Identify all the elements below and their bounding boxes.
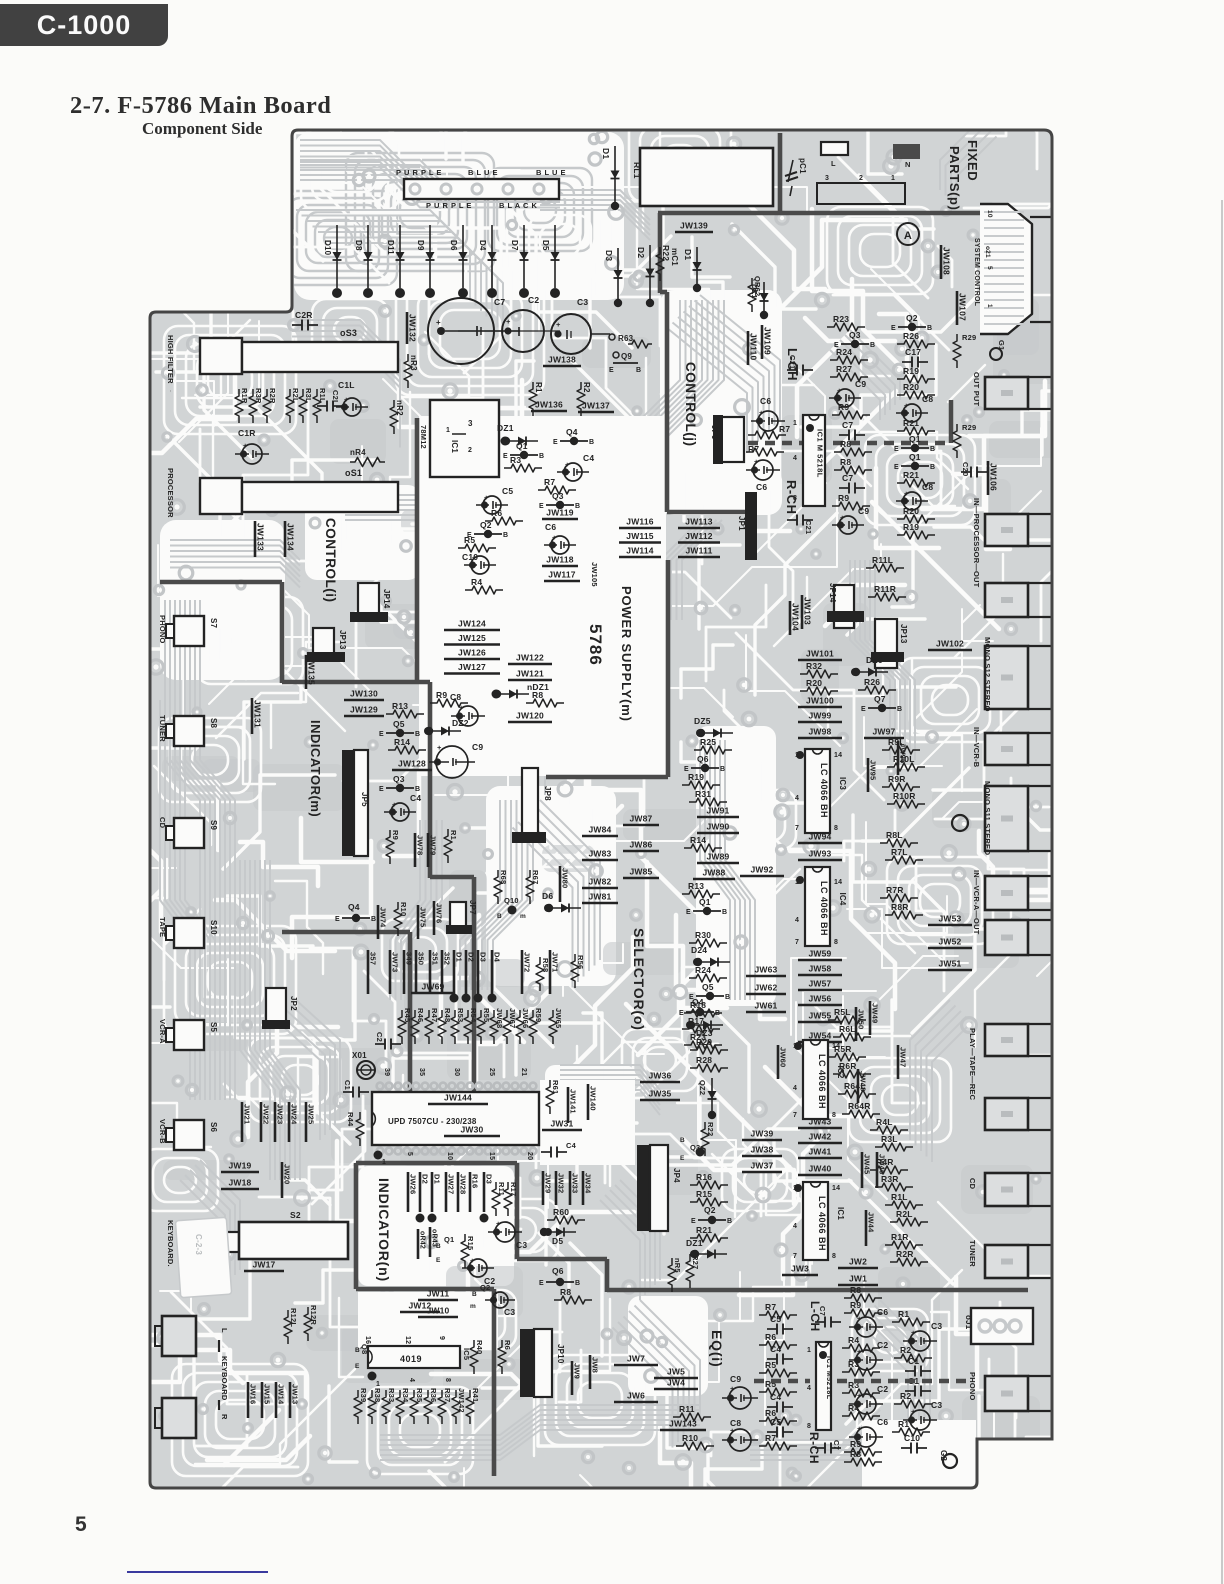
svg-text:B: B [472, 1291, 477, 1298]
svg-text:C1R: C1R [238, 428, 256, 438]
capacitor C1L [343, 398, 361, 416]
svg-text:C5: C5 [502, 486, 513, 496]
resistor [953, 424, 961, 458]
resistor R5 [458, 544, 496, 552]
jumper JW27 [445, 1172, 448, 1212]
connector oS1 [200, 478, 242, 514]
jumper JW60 [777, 1045, 780, 1079]
svg-text:Q2: Q2 [480, 1283, 490, 1292]
resistor [492, 1182, 500, 1216]
svg-text:R13: R13 [392, 701, 408, 711]
svg-text:JW20: JW20 [283, 1164, 292, 1184]
svg-text:R11L: R11L [872, 555, 893, 565]
jumper JW101 [798, 659, 842, 662]
resistor [529, 1010, 537, 1044]
svg-text:JP10: JP10 [556, 1344, 565, 1364]
svg-text:JW141: JW141 [569, 1089, 578, 1114]
jumper JW43 [798, 1127, 842, 1130]
svg-text:16: 16 [364, 1336, 371, 1344]
jumper D3 [483, 1172, 486, 1212]
svg-text:R68: R68 [499, 870, 508, 884]
svg-text:JW39: JW39 [750, 1129, 773, 1139]
svg-text:JW131: JW131 [253, 700, 263, 728]
svg-text:oS3: oS3 [344, 341, 347, 343]
svg-text:C1: C1 [343, 1080, 352, 1090]
svg-text:JW81: JW81 [588, 892, 611, 902]
svg-text:KEYBOARD: KEYBOARD [220, 1356, 229, 1401]
svg-text:R11R: R11R [874, 584, 896, 594]
jumper JW136 [531, 410, 567, 413]
svg-text:E: E [680, 1155, 685, 1162]
svg-text:R8: R8 [850, 1449, 861, 1459]
jumper JW78 [414, 833, 417, 867]
svg-text:R7: R7 [765, 1302, 776, 1312]
svg-text:E: E [379, 731, 384, 738]
svg-text:R38: R38 [373, 1388, 382, 1402]
resistor [686, 1254, 694, 1288]
capacitor C1 [905, 1390, 915, 1392]
svg-text:E: E [894, 446, 899, 453]
svg-text:E: E [539, 503, 544, 510]
svg-text:349: 349 [405, 952, 414, 965]
svg-text:KEYBOARD.: KEYBOARD. [166, 1220, 175, 1267]
capacitor C8 [729, 1429, 751, 1451]
resistor R2 [894, 1400, 932, 1408]
svg-text:POWER SUPPLY(m): POWER SUPPLY(m) [619, 586, 634, 722]
resistor [498, 1340, 506, 1374]
transistor [342, 917, 370, 919]
transistor [868, 707, 896, 709]
svg-text:JW99: JW99 [808, 711, 831, 721]
diode [856, 671, 888, 673]
resistor R26 [858, 686, 896, 694]
svg-text:JW106: JW106 [989, 463, 999, 491]
jumper JW71 [549, 950, 552, 994]
jumper JW127 [444, 672, 500, 675]
svg-text:78M12: 78M12 [419, 425, 428, 449]
svg-text:R25: R25 [700, 737, 716, 747]
jumper JW102 [928, 649, 972, 652]
svg-text:JP5: JP5 [360, 792, 369, 807]
resistor [286, 389, 294, 423]
svg-text:JW113: JW113 [685, 517, 713, 527]
resistor R6 [759, 1417, 797, 1425]
jumper JW122 [508, 663, 552, 666]
jumper JW26 [407, 1172, 410, 1212]
svg-text:12: 12 [404, 1336, 411, 1344]
resistor R5 [759, 1369, 797, 1377]
svg-text:C4: C4 [583, 453, 594, 463]
svg-text:JW85: JW85 [629, 867, 652, 877]
svg-text:JW49: JW49 [871, 1003, 880, 1023]
jumper JW33 [569, 1171, 572, 1205]
jumper JW120 [508, 721, 552, 724]
switch S2 [215, 1232, 239, 1252]
capacitor [375, 1043, 385, 1045]
resistor R9 [832, 411, 870, 419]
svg-text:R15: R15 [466, 1236, 475, 1250]
svg-text:JW57: JW57 [808, 979, 831, 989]
resistor [263, 389, 271, 423]
svg-text:PLAY—TAPE—REC: PLAY—TAPE—REC [968, 1028, 977, 1101]
svg-text:R10: R10 [682, 1433, 698, 1443]
svg-text:JW87: JW87 [629, 814, 652, 824]
svg-text:R6R: R6R [839, 1061, 857, 1071]
jumper JW4 [654, 1388, 698, 1391]
resistor R29 [690, 1046, 728, 1054]
transistor [686, 1011, 714, 1013]
jumper JW104 [789, 601, 792, 635]
connector TUNER [985, 1245, 1028, 1278]
svg-text:R7: R7 [779, 424, 790, 434]
transistor [696, 995, 724, 997]
resistor [354, 1390, 362, 1424]
svg-text:nR5: nR5 [673, 1258, 682, 1273]
capacitor C4 [391, 803, 409, 821]
resistor [313, 389, 321, 423]
svg-text:JW127: JW127 [458, 662, 486, 672]
resistor R3 [504, 464, 542, 472]
resistor R6L [833, 1033, 871, 1041]
resistor [438, 1390, 446, 1424]
jumper JW139 [675, 231, 713, 234]
jumper JW59 [798, 959, 842, 962]
svg-text:JW29: JW29 [544, 1173, 553, 1193]
svg-text:B: B [725, 994, 730, 1001]
svg-text:JW59: JW59 [808, 949, 831, 959]
svg-text:C-2-3: C-2-3 [194, 1234, 203, 1255]
jumper JW63 [746, 975, 786, 978]
svg-text:JW109: JW109 [763, 327, 773, 355]
svg-text:R7: R7 [544, 477, 555, 487]
svg-text:E: E [503, 453, 508, 460]
connector CD [985, 1173, 1028, 1206]
svg-text:JW41: JW41 [808, 1147, 831, 1157]
svg-text:oS3: oS3 [340, 328, 357, 338]
svg-text:Q4: Q4 [692, 997, 704, 1007]
svg-text:R31: R31 [695, 789, 711, 799]
svg-text:C1L: C1L [338, 380, 355, 390]
capacitor [787, 369, 797, 371]
svg-text:1: 1 [793, 420, 797, 427]
connector PLAY—TAPE—REC [985, 1098, 1028, 1130]
switch S7 (PHONO) [174, 616, 204, 646]
svg-text:D4: D4 [478, 240, 487, 251]
svg-text:D10: D10 [323, 240, 332, 256]
resistor R60 [547, 1216, 585, 1224]
svg-text:DZ1: DZ1 [750, 284, 759, 299]
IC IC4 [805, 867, 830, 946]
svg-text:14: 14 [832, 1185, 840, 1192]
svg-text:JW61: JW61 [754, 1001, 777, 1011]
resistor [526, 870, 534, 904]
svg-text:JW24: JW24 [290, 1104, 299, 1125]
transistor [691, 767, 719, 769]
svg-text:39: 39 [383, 1068, 390, 1076]
diode DZ1 [763, 282, 765, 312]
connector IN—VCR-A—OUT [985, 920, 1028, 955]
svg-text:C6: C6 [877, 1417, 888, 1427]
svg-text:+: + [840, 513, 845, 522]
resistor R26 [897, 340, 935, 348]
svg-text:1: 1 [807, 1347, 811, 1354]
svg-text:R36: R36 [429, 1388, 438, 1402]
svg-text:D6: D6 [542, 891, 553, 901]
svg-text:C3: C3 [931, 1321, 942, 1331]
jumper JW58 [798, 974, 842, 977]
connector wire-colour strip [404, 179, 559, 199]
resistor R1R [885, 1241, 923, 1249]
svg-text:R2: R2 [582, 382, 591, 393]
resistor R1 [892, 1318, 930, 1326]
resistor R9 [832, 502, 870, 510]
svg-text:D3: D3 [479, 952, 488, 962]
svg-text:JW112: JW112 [685, 531, 713, 541]
svg-text:D2: D2 [421, 1174, 430, 1184]
svg-text:TAPE: TAPE [158, 917, 167, 937]
svg-text:JW107: JW107 [958, 293, 968, 321]
diode [695, 1253, 727, 1255]
svg-text:JP14: JP14 [828, 583, 837, 603]
svg-text:MONO S12 STEREO: MONO S12 STEREO [983, 637, 992, 712]
svg-text:R6: R6 [503, 1340, 512, 1350]
jumper JW88 [693, 878, 735, 881]
resistor R31 [689, 798, 727, 806]
svg-text:L: L [220, 1328, 229, 1333]
svg-text:9: 9 [438, 1336, 445, 1340]
svg-text:R21: R21 [903, 418, 919, 428]
svg-text:JW116: JW116 [626, 517, 654, 527]
jumper JW92 [740, 875, 784, 878]
resistor R23 [827, 323, 865, 331]
jumper JW45 [861, 1152, 864, 1188]
svg-text:R8: R8 [850, 1285, 861, 1295]
svg-text:o21: o21 [984, 246, 991, 258]
connector JP8 [522, 768, 538, 834]
svg-text:JW88: JW88 [702, 868, 725, 878]
svg-text:R4L: R4L [876, 1117, 893, 1127]
svg-text:350: 350 [417, 952, 426, 965]
jumper JW95 [867, 758, 870, 792]
svg-text:+: + [493, 1289, 498, 1298]
jumper JW69 [411, 992, 455, 995]
svg-text:Q1: Q1 [516, 441, 528, 451]
jumper JW29 [542, 1171, 545, 1205]
svg-text:JP7: JP7 [468, 900, 477, 915]
svg-text:Q2: Q2 [480, 520, 492, 530]
resistor R17 [682, 1025, 720, 1033]
resistor R4 [842, 1412, 880, 1420]
svg-text:JW65: JW65 [554, 1008, 563, 1028]
svg-text:R37: R37 [443, 1388, 452, 1402]
jumper D1 [431, 1172, 434, 1212]
jumper 349 [403, 950, 406, 994]
svg-text:R6: R6 [765, 1332, 776, 1342]
svg-text:R2: R2 [900, 1345, 911, 1355]
svg-text:JW4: JW4 [667, 1378, 685, 1388]
resistor [284, 1310, 292, 1344]
svg-text:+: + [437, 743, 442, 752]
resistor R4 [465, 586, 503, 594]
svg-text:R3L: R3L [304, 388, 313, 403]
svg-text:C20: C20 [961, 462, 970, 476]
svg-text:JW23: JW23 [276, 1104, 285, 1124]
svg-text:D1: D1 [455, 952, 464, 962]
svg-text:D4: D4 [493, 952, 502, 963]
svg-text:JW83: JW83 [588, 849, 611, 859]
svg-text:JW91: JW91 [706, 806, 729, 816]
svg-text:Q6: Q6 [697, 754, 709, 764]
svg-text:R20: R20 [903, 506, 919, 516]
svg-text:R39: R39 [359, 1388, 368, 1402]
svg-text:B: B [415, 731, 420, 738]
svg-text:Q3: Q3 [552, 491, 564, 501]
jumper JW17 [244, 1270, 284, 1273]
svg-text:B: B [927, 325, 932, 332]
svg-text:D7: D7 [510, 240, 519, 251]
jumper JW57 [798, 989, 842, 992]
IC IC6 UPD7507CU [372, 1092, 539, 1145]
resistor R14 [388, 746, 426, 754]
svg-text:JP4: JP4 [672, 1168, 681, 1183]
svg-text:Q3: Q3 [393, 774, 405, 784]
svg-text:R28: R28 [696, 1055, 712, 1065]
jumper JW130 [344, 699, 384, 702]
svg-text:OUT PUT: OUT PUT [972, 372, 981, 407]
svg-text:5: 5 [406, 1152, 413, 1156]
transistor [386, 732, 414, 734]
jumper JW7 [614, 1364, 658, 1367]
svg-text:TUNER: TUNER [158, 715, 167, 742]
svg-text:30: 30 [453, 1068, 460, 1076]
svg-text:JP13: JP13 [899, 624, 908, 644]
resistor R9L [882, 746, 920, 754]
capacitor C1 [905, 1370, 915, 1372]
jumper JW80 [559, 866, 562, 902]
resistor [390, 400, 398, 434]
capacitor C17 [902, 361, 912, 363]
jumper JW134 [284, 521, 287, 557]
svg-text:JW92: JW92 [750, 865, 773, 875]
jumper JW125 [444, 643, 500, 646]
svg-text:B: B [897, 706, 902, 713]
diode QZ2 [711, 1078, 713, 1112]
jumper JW54 [798, 1041, 842, 1044]
svg-text:EQ(i): EQ(i) [709, 1330, 725, 1367]
svg-text:+: + [506, 317, 511, 326]
svg-text:JW5: JW5 [667, 1367, 685, 1377]
capacitor C3 [492, 1292, 508, 1308]
resistor R2R [890, 1258, 928, 1266]
svg-text:B: B [371, 916, 376, 923]
svg-text:JW104: JW104 [791, 603, 801, 631]
resistor R3L [875, 1143, 913, 1151]
jumper JW10 [418, 1316, 458, 1319]
svg-text:R1: R1 [449, 830, 458, 840]
svg-text:IC1 M 5218L: IC1 M 5218L [816, 429, 825, 478]
svg-text:JW19: JW19 [228, 1161, 251, 1171]
svg-text:R53: R53 [456, 1008, 465, 1022]
svg-text:14: 14 [834, 879, 842, 886]
transistor [386, 787, 414, 789]
svg-text:C4: C4 [770, 1392, 781, 1402]
jumper JW62 [746, 993, 786, 996]
svg-text:1: 1 [986, 304, 993, 308]
jumper JW109 [761, 325, 764, 359]
svg-text:Q2: Q2 [704, 1205, 716, 1215]
jumper JW46 [876, 1152, 879, 1188]
svg-text:C1: C1 [908, 1356, 919, 1366]
jumper JW135 [305, 655, 308, 689]
svg-text:21: 21 [520, 1068, 527, 1076]
resistor R27 [830, 373, 868, 381]
jumper JW110 [747, 331, 750, 365]
resistor R4L [870, 1126, 908, 1134]
svg-text:+: + [837, 386, 842, 395]
jumper D2 [419, 1172, 422, 1212]
svg-text:Q5: Q5 [702, 982, 714, 992]
svg-text:PROCESSOR: PROCESSOR [166, 468, 175, 518]
jumper JW108 [940, 245, 943, 279]
svg-text:C17: C17 [905, 347, 921, 357]
jumper JW96 [897, 741, 900, 775]
resistor R5R [828, 1053, 866, 1061]
jumper JW87 [623, 824, 659, 827]
capacitor C3 [495, 1222, 515, 1242]
svg-text:2: 2 [859, 175, 863, 182]
capacitor C5 [767, 1328, 777, 1330]
svg-text:SELECTOR(o): SELECTOR(o) [631, 928, 647, 1031]
svg-text:JW124: JW124 [458, 619, 486, 629]
jumper JW129 [344, 715, 384, 718]
svg-text:JW32: JW32 [557, 1173, 566, 1193]
resistor [411, 1010, 419, 1044]
capacitor C3 [910, 1410, 930, 1430]
svg-text:352: 352 [443, 952, 452, 965]
crystal X01 [357, 1061, 375, 1079]
svg-text:C9: C9 [855, 379, 866, 389]
svg-text:5786: 5786 [586, 624, 605, 666]
svg-text:C6: C6 [545, 522, 556, 532]
diode D2 [649, 245, 651, 300]
svg-text:CONTROL(i): CONTROL(i) [323, 518, 338, 602]
svg-text:E: E [691, 1218, 696, 1225]
svg-text:CD: CD [968, 1178, 977, 1190]
svg-text:CD: CD [158, 817, 167, 829]
jumper JW86 [623, 850, 659, 853]
svg-text:1: 1 [382, 1159, 386, 1166]
svg-text:JW25: JW25 [307, 1104, 316, 1124]
svg-text:IC5: IC5 [462, 1348, 471, 1360]
jumper JW44 [865, 1210, 868, 1246]
svg-text:R19: R19 [903, 522, 919, 532]
jumper R16 [469, 1172, 472, 1212]
svg-text:+: + [484, 493, 489, 502]
resistor R7 [748, 431, 786, 439]
svg-text:S10: S10 [209, 920, 218, 935]
svg-text:JW129: JW129 [350, 705, 378, 715]
svg-text:LC 4066 BH: LC 4066 BH [819, 881, 829, 936]
jumper JW106 [987, 461, 990, 495]
capacitor C9 [436, 746, 468, 778]
resistor [529, 382, 537, 416]
resistor R19 [897, 375, 935, 383]
svg-text:8: 8 [793, 495, 797, 502]
svg-text:R7: R7 [765, 1433, 776, 1443]
svg-text:JW69: JW69 [421, 982, 444, 992]
IC IC1 [803, 1182, 828, 1260]
svg-text:B L U E: B L U E [536, 168, 566, 177]
